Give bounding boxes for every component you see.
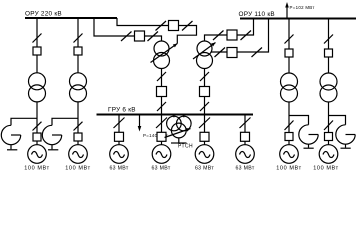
generator G7: [280, 145, 299, 164]
breaker Q5: [157, 87, 167, 97]
breaker Q8: [200, 87, 210, 97]
breaker QG7: [285, 133, 293, 141]
termination bar LR4: [341, 147, 351, 149]
svg-text:63 МВт: 63 МВт: [236, 165, 255, 171]
breaker QG4: [157, 132, 166, 141]
generator G3: [110, 145, 129, 164]
wire T1 to generator G1: [36, 102, 38, 145]
wire LR3 down: [308, 144, 310, 148]
tap changer arrow РТСН: [165, 129, 191, 138]
disconnector QS1: [33, 34, 42, 43]
wire gen6 bay: [244, 115, 246, 145]
wire drop A from 220 bus: [94, 18, 162, 41]
wire branch to reactor LR1: [11, 118, 37, 125]
disconnector QS16: [200, 102, 209, 111]
disconnector QS11: [213, 31, 224, 41]
disconnector QS22: [285, 121, 294, 131]
breaker QG1: [33, 133, 41, 141]
breaker QG5: [200, 132, 209, 141]
transformer T5: [154, 41, 169, 56]
wire bay2 bus to breaker: [77, 18, 79, 73]
busbar ГРУ 6 кВ: [97, 114, 254, 116]
generator G6: [236, 145, 255, 164]
disconnector QS4: [74, 122, 83, 131]
wire LR1 down: [10, 145, 12, 150]
generator G1: [28, 145, 47, 164]
svg-text:63 МВт: 63 МВт: [195, 165, 214, 171]
svg-text:ГРУ 6 кВ: ГРУ 6 кВ: [108, 107, 136, 114]
breaker QG2: [74, 133, 82, 141]
reactor LR3: [299, 125, 318, 144]
reactor LR1: [1, 125, 20, 144]
breaker QG6: [241, 132, 250, 141]
wire bay1 bus to breaker: [36, 18, 38, 73]
transformer T2: [70, 73, 87, 90]
transformer T1: [29, 73, 46, 90]
breaker Q10: [325, 49, 333, 57]
disconnector QS3: [74, 34, 83, 43]
reactor LR4: [336, 125, 355, 144]
wire gen4 bay: [161, 115, 163, 145]
breaker Q1: [33, 47, 41, 55]
breaker Q7: [227, 48, 237, 58]
breaker Q2: [74, 47, 82, 55]
svg-text:100 МВт: 100 МВт: [276, 165, 302, 171]
wire bay7 bus to breaker: [288, 19, 290, 74]
termination bar LR3: [304, 147, 314, 149]
disconnector QS5: [121, 32, 132, 42]
disconnector QS23: [324, 35, 333, 44]
disconnector QS13: [215, 48, 226, 58]
disconnector QS19: [199, 118, 210, 129]
wire T3 to generator G7: [288, 102, 290, 145]
disconnector QS21: [285, 35, 294, 44]
wire rail D T6 to 110 bus: [205, 19, 254, 42]
disconnector QS17: [114, 118, 125, 129]
wire T5 down to ГРУ: [161, 69, 163, 115]
disconnector QS20: [240, 118, 251, 129]
transformer T6: [197, 41, 212, 56]
disconnector QS2: [33, 122, 42, 131]
tap changer arrow T6: [193, 43, 216, 60]
svg-text:63 МВт: 63 МВт: [152, 165, 171, 171]
wire РТСН stubs: [173, 115, 175, 118]
wire branch to reactor LR2: [52, 118, 78, 125]
reactor LR2: [42, 125, 61, 144]
wire branch to reactor LR3: [289, 116, 309, 125]
disconnector QS14: [252, 48, 263, 58]
busbar ОРУ 220 кВ: [25, 17, 117, 19]
breaker QG3: [115, 132, 124, 141]
load arrow P=140 MW down from ГРУ bus: [139, 115, 141, 128]
disconnector QS10: [157, 102, 166, 111]
tap changer arrow T5: [151, 44, 178, 63]
disconnector QS9: [157, 72, 166, 81]
termination bar РТСН: [171, 142, 187, 144]
wire РТСН down: [178, 138, 180, 143]
power flow arrow P=102 MW up from 110 bus: [286, 6, 288, 19]
breaker Q3: [135, 31, 145, 41]
transformer T3: [281, 73, 298, 90]
disconnector QS7: [156, 21, 167, 31]
disconnector QS6: [148, 32, 159, 42]
breaker QG8: [325, 133, 333, 141]
svg-text:100 МВт: 100 МВт: [65, 165, 91, 171]
disconnector QS18: [156, 118, 167, 129]
wire gen3 bay: [118, 115, 120, 145]
wire T4 to generator G8: [328, 102, 330, 145]
generator G5: [195, 145, 214, 164]
wire LR4 down: [345, 144, 347, 148]
generator G4: [152, 145, 171, 164]
breaker Q4: [169, 21, 179, 31]
wire T6 down to ГРУ: [204, 69, 206, 115]
svg-text:ОРУ 220 кВ: ОРУ 220 кВ: [25, 10, 62, 17]
transformer T4: [320, 73, 337, 90]
disconnector QS15: [200, 72, 209, 81]
busbar ОРУ 110 кВ: [240, 18, 356, 20]
svg-text:100 МВт: 100 МВт: [24, 165, 50, 171]
transformer РТСН: [167, 116, 182, 131]
breaker Q9: [285, 49, 293, 57]
wire branch to reactor LR4: [329, 116, 346, 125]
wire LR2 down: [51, 145, 53, 150]
termination bar LR2: [48, 149, 58, 151]
wire bay8 bus to breaker: [328, 19, 330, 74]
svg-text:100 МВт: 100 МВт: [313, 165, 339, 171]
svg-text:ОРУ 110 кВ: ОРУ 110 кВ: [239, 11, 275, 18]
breaker Q6: [227, 30, 237, 40]
wire rail E T6 to 110 bus: [211, 19, 269, 53]
svg-text:РТСН: РТСН: [178, 144, 193, 150]
disconnector QS24: [324, 121, 333, 131]
wire rail B from 220 bus: [117, 18, 197, 44]
disconnector QS12: [241, 31, 252, 41]
wire gen5 bay: [204, 115, 206, 145]
termination bar LR1: [7, 149, 17, 151]
generator G2: [69, 145, 88, 164]
disconnector QS8: [182, 21, 193, 31]
generator G8: [319, 145, 338, 164]
svg-text:Р=102 МВт: Р=102 МВт: [290, 5, 315, 10]
svg-text:63 МВт: 63 МВт: [110, 165, 129, 171]
wire T2 to generator G2: [77, 102, 79, 145]
